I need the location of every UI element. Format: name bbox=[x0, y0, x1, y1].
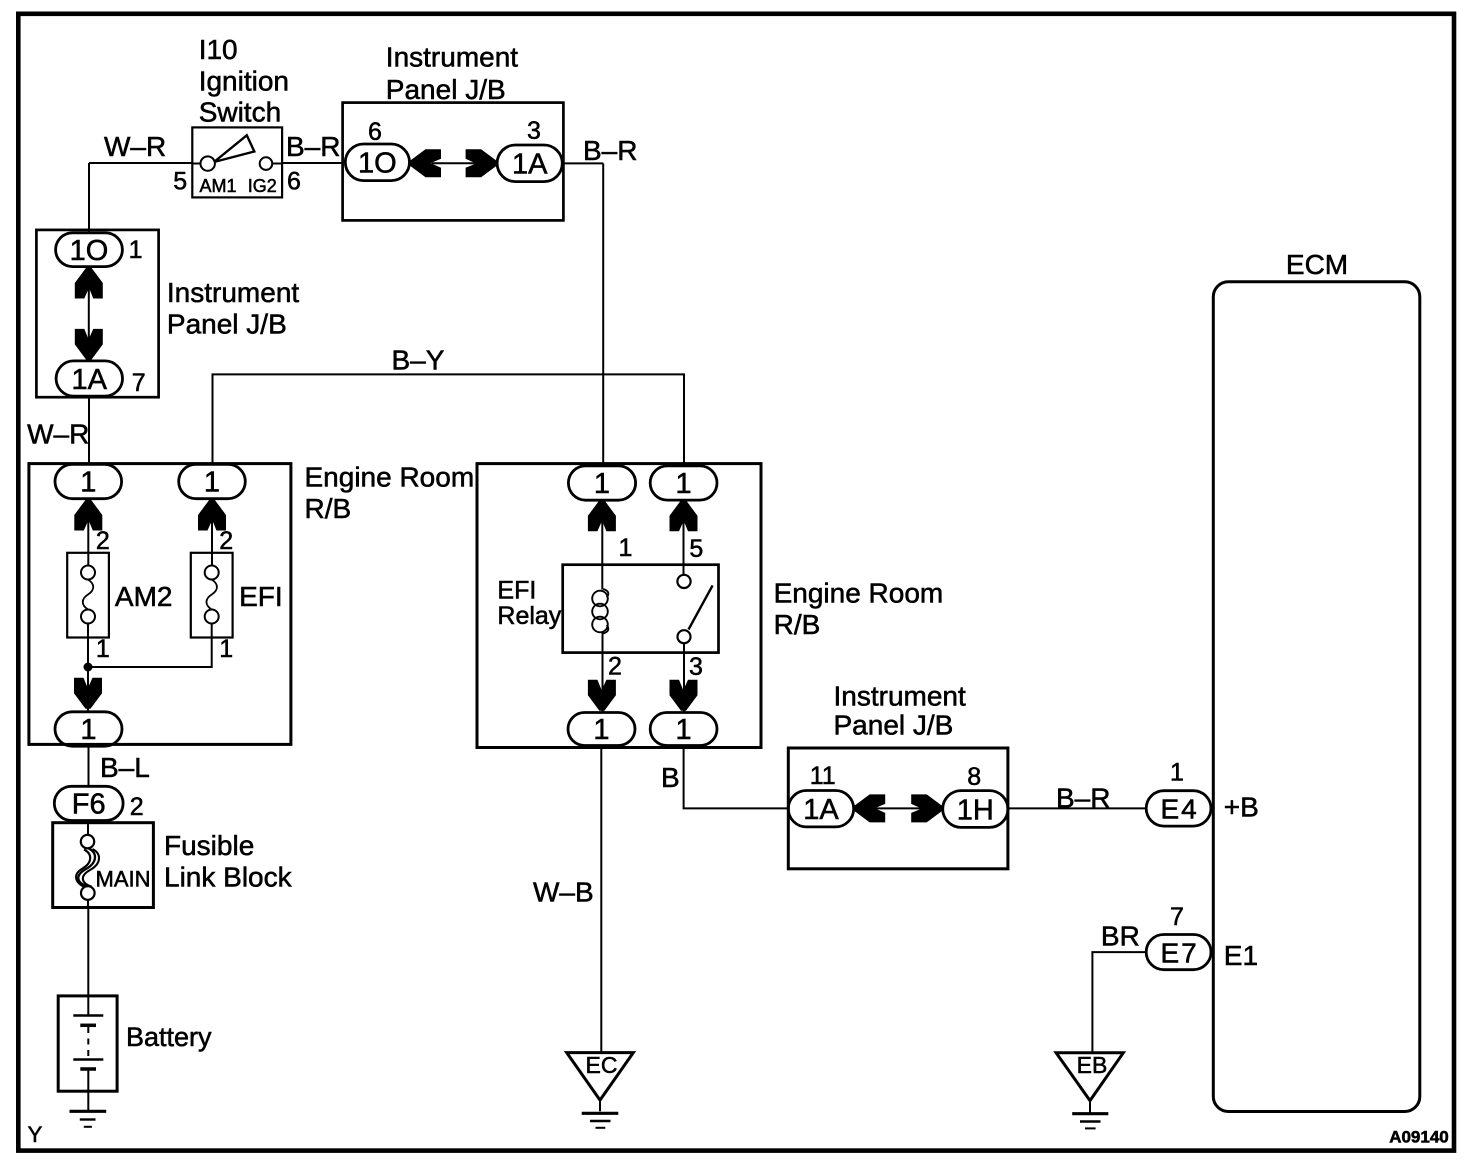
ECM box bbox=[1213, 282, 1420, 1112]
engine room R/B box bbox=[477, 464, 761, 748]
svg-text:1: 1 bbox=[96, 635, 110, 663]
svg-text:Battery: Battery bbox=[126, 1022, 212, 1052]
svg-text:F6: F6 bbox=[72, 789, 106, 821]
up arrow bbox=[75, 268, 103, 299]
junction dot bbox=[84, 663, 93, 672]
svg-text:EFI: EFI bbox=[239, 581, 283, 612]
connector 1 oval (bottom left) bbox=[568, 713, 635, 746]
svg-text:Engine Room: Engine Room bbox=[305, 462, 475, 493]
svg-text:2: 2 bbox=[608, 653, 622, 681]
svg-text:1: 1 bbox=[80, 467, 96, 499]
connector 1H oval bbox=[943, 791, 1008, 828]
wire AM2 fuse to junction bbox=[87, 624, 89, 712]
ignition switch I10 label bbox=[199, 34, 289, 128]
wire battery to ground bbox=[87, 1069, 89, 1111]
svg-text:Link Block: Link Block bbox=[164, 861, 293, 892]
down arrow bbox=[74, 678, 102, 709]
svg-text:2: 2 bbox=[219, 527, 233, 555]
svg-text:EFI: EFI bbox=[497, 577, 536, 605]
svg-text:1A: 1A bbox=[72, 364, 108, 396]
up arrow bbox=[670, 500, 698, 531]
wire W-R down to engine room R/B bbox=[88, 396, 90, 465]
wire switch to bottom connector bbox=[683, 643, 685, 712]
connector 1A oval bbox=[788, 791, 853, 827]
down arrow bbox=[588, 680, 616, 711]
svg-text:1: 1 bbox=[129, 236, 143, 264]
svg-text:W–B: W–B bbox=[533, 877, 594, 908]
connector 1 oval (bottom) bbox=[55, 712, 122, 746]
wire EFI fuse to junction bbox=[88, 624, 212, 668]
svg-text:Instrument: Instrument bbox=[167, 277, 299, 308]
svg-text:1: 1 bbox=[619, 534, 633, 562]
instrument panel J/B box bbox=[343, 103, 564, 221]
svg-text:1A: 1A bbox=[512, 149, 548, 181]
engine room R/B label bbox=[774, 577, 944, 640]
fuse EFI element bbox=[205, 566, 219, 624]
svg-text:Switch: Switch bbox=[199, 97, 281, 128]
ground EC triangle bbox=[567, 1053, 634, 1101]
svg-text:1: 1 bbox=[676, 714, 692, 746]
wire pin5 into relay bbox=[683, 499, 685, 575]
svg-text:A09140: A09140 bbox=[1389, 1128, 1449, 1147]
EFI relay label bbox=[497, 577, 561, 630]
connector 1 oval (EFI side) bbox=[179, 464, 246, 498]
svg-text:6: 6 bbox=[287, 168, 301, 196]
fusible link block box bbox=[53, 823, 154, 908]
connector 1 oval (AM2 side) bbox=[55, 464, 122, 498]
wire from switch down to 1O bbox=[88, 163, 90, 233]
fuse AM2 box bbox=[67, 553, 109, 638]
svg-text:B–Y: B–Y bbox=[392, 345, 445, 376]
connector E7 oval bbox=[1146, 935, 1211, 970]
svg-text:B–R: B–R bbox=[1056, 783, 1110, 814]
fusible link internal stubs bbox=[87, 823, 89, 908]
J/B right arrow bbox=[466, 149, 497, 177]
svg-text:1O: 1O bbox=[70, 235, 109, 267]
ground symbol bbox=[70, 1111, 107, 1127]
connector 1A oval bbox=[56, 361, 122, 396]
wire B-R switch to J/B bbox=[282, 162, 343, 164]
svg-text:Fusible: Fusible bbox=[164, 830, 254, 861]
connector 1A oval bbox=[497, 145, 562, 182]
svg-text:R/B: R/B bbox=[305, 493, 352, 524]
wire EB to ground bbox=[1089, 1101, 1091, 1114]
svg-text:Panel J/B: Panel J/B bbox=[386, 74, 506, 105]
ground symbol bbox=[582, 1113, 619, 1128]
svg-text:Engine Room: Engine Room bbox=[774, 577, 944, 608]
down arrow bbox=[670, 680, 698, 711]
internal wire bbox=[88, 267, 90, 361]
wire EC to ground bbox=[599, 1100, 601, 1111]
instrument panel J/B box bbox=[36, 230, 158, 397]
engine room R/B box bbox=[29, 464, 291, 745]
svg-text:BR: BR bbox=[1101, 921, 1140, 952]
wire to AM2 fuse bbox=[87, 499, 89, 566]
fusible link block label bbox=[164, 830, 293, 892]
ignition switch box bbox=[192, 127, 282, 197]
instrument panel J/B label bbox=[834, 681, 966, 741]
ignition switch lever bbox=[214, 135, 254, 162]
svg-text:1: 1 bbox=[80, 714, 96, 746]
up arrow bbox=[74, 500, 102, 531]
fuse AM2 element bbox=[81, 566, 95, 624]
connector 1 oval (switch) bbox=[650, 466, 717, 500]
svg-text:W–R: W–R bbox=[104, 131, 166, 162]
svg-text:EB: EB bbox=[1077, 1052, 1108, 1078]
wire B-R from 1A bbox=[562, 162, 603, 164]
svg-text:EC: EC bbox=[586, 1052, 618, 1078]
svg-text:3: 3 bbox=[527, 117, 541, 145]
svg-text:IG2: IG2 bbox=[248, 176, 277, 196]
wire to EFI fuse bbox=[211, 499, 213, 566]
connector 1 oval (coil) bbox=[568, 466, 635, 500]
connector 1 oval (bottom right) bbox=[650, 713, 717, 746]
svg-text:6: 6 bbox=[368, 118, 382, 146]
svg-text:1A: 1A bbox=[803, 794, 839, 826]
relay coil bbox=[592, 589, 608, 634]
svg-text:1: 1 bbox=[593, 714, 609, 746]
svg-text:5: 5 bbox=[173, 168, 187, 196]
svg-text:ECM: ECM bbox=[1286, 249, 1348, 280]
svg-text:7: 7 bbox=[132, 369, 146, 397]
instrument panel J/B box bbox=[788, 748, 1008, 869]
instrument panel J/B label bbox=[386, 42, 518, 106]
svg-text:B–R: B–R bbox=[583, 135, 637, 166]
svg-text:B–R: B–R bbox=[286, 131, 340, 162]
svg-text:2: 2 bbox=[96, 527, 110, 555]
wire W-B bbox=[600, 746, 602, 1053]
svg-text:8: 8 bbox=[967, 763, 981, 791]
J/B left arrow bbox=[410, 149, 441, 177]
wire coil to bottom connector bbox=[602, 632, 604, 713]
J/B arrow link wire bbox=[432, 162, 477, 164]
fuse EFI box bbox=[191, 553, 233, 638]
svg-text:2: 2 bbox=[130, 793, 144, 821]
svg-text:R/B: R/B bbox=[774, 609, 821, 640]
svg-text:1H: 1H bbox=[957, 795, 994, 827]
connector E4 oval bbox=[1146, 791, 1211, 826]
J/B left arrow bbox=[854, 794, 885, 822]
svg-text:1: 1 bbox=[204, 467, 220, 499]
svg-text:E4: E4 bbox=[1160, 794, 1198, 825]
wire B-R to ECM bbox=[1008, 807, 1146, 809]
svg-text:1: 1 bbox=[676, 468, 692, 500]
wire B bbox=[684, 746, 789, 809]
svg-text:E7: E7 bbox=[1160, 938, 1198, 969]
svg-text:7: 7 bbox=[1170, 903, 1184, 931]
svg-text:I10: I10 bbox=[199, 34, 238, 65]
svg-text:B–L: B–L bbox=[100, 752, 150, 783]
svg-text:Instrument: Instrument bbox=[834, 681, 966, 712]
svg-text:AM2: AM2 bbox=[115, 581, 173, 612]
wire BR to EB ground bbox=[1092, 952, 1146, 1053]
down arrow bbox=[75, 329, 103, 360]
svg-text:B: B bbox=[661, 762, 680, 793]
svg-text:1: 1 bbox=[219, 635, 233, 663]
svg-text:5: 5 bbox=[689, 535, 703, 563]
relay switch bbox=[677, 575, 712, 643]
svg-text:Instrument: Instrument bbox=[386, 42, 518, 73]
svg-text:Ignition: Ignition bbox=[199, 66, 289, 97]
up arrow bbox=[588, 500, 616, 531]
battery plates bbox=[73, 1016, 103, 1070]
fusible link MAIN element bbox=[76, 835, 99, 900]
J/B right arrow bbox=[911, 794, 942, 822]
ignition switch internal wire stubs bbox=[192, 163, 282, 165]
wire B-L bbox=[88, 746, 90, 786]
ignition switch terminal AM1 bbox=[201, 156, 215, 170]
svg-text:Panel J/B: Panel J/B bbox=[167, 309, 287, 340]
svg-text:1O: 1O bbox=[358, 148, 397, 180]
up arrow bbox=[198, 500, 226, 531]
ground symbol bbox=[1072, 1114, 1108, 1129]
svg-text:Relay: Relay bbox=[497, 602, 561, 630]
svg-text:Panel J/B: Panel J/B bbox=[834, 710, 954, 741]
connector 1O oval bbox=[345, 144, 409, 181]
wire B-Y bbox=[213, 374, 685, 465]
ignition switch terminal IG2 bbox=[260, 157, 273, 170]
svg-text:Y: Y bbox=[28, 1122, 43, 1147]
instrument panel J/B label bbox=[167, 277, 299, 340]
svg-text:1: 1 bbox=[594, 468, 610, 500]
wire W-R to ignition switch bbox=[89, 162, 192, 164]
battery box bbox=[58, 996, 117, 1091]
svg-text:11: 11 bbox=[810, 762, 836, 790]
svg-text:1: 1 bbox=[1170, 759, 1184, 787]
svg-text:3: 3 bbox=[689, 653, 703, 681]
engine room R/B label bbox=[305, 462, 475, 525]
svg-text:E1: E1 bbox=[1224, 940, 1258, 971]
svg-text:AM1: AM1 bbox=[200, 176, 237, 196]
svg-text:MAIN: MAIN bbox=[96, 867, 151, 892]
ground EB triangle bbox=[1056, 1053, 1123, 1101]
svg-text:+B: +B bbox=[1224, 792, 1259, 823]
connector F6 oval bbox=[54, 786, 123, 820]
connector 1O oval bbox=[56, 233, 123, 267]
EFI relay box bbox=[563, 565, 719, 653]
wire relay pin 1 bbox=[601, 501, 603, 590]
wire B-R vertical down to relay bbox=[602, 163, 604, 466]
svg-text:W–R: W–R bbox=[27, 419, 89, 450]
wire to battery bbox=[87, 908, 89, 1016]
J/B arrow link wire bbox=[875, 807, 923, 809]
